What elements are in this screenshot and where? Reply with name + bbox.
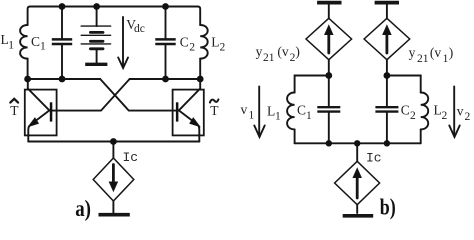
svg-text:T: T (10, 103, 19, 118)
svg-text:1: 1 (8, 40, 14, 52)
svg-text:21: 21 (417, 53, 429, 65)
svg-text:2: 2 (410, 110, 416, 122)
svg-text:v: v (457, 104, 464, 119)
svg-text:1: 1 (443, 53, 449, 65)
svg-text:dc: dc (134, 23, 145, 35)
svg-text:2: 2 (220, 42, 226, 54)
svg-text:C: C (401, 103, 410, 118)
svg-text:2: 2 (189, 42, 195, 54)
svg-text:y: y (409, 45, 416, 60)
svg-text:1: 1 (306, 110, 312, 122)
svg-text:Ic: Ic (366, 151, 382, 166)
svg-text:L: L (211, 34, 219, 49)
svg-text:C: C (31, 34, 40, 49)
svg-text:2: 2 (465, 111, 471, 123)
svg-text:(v: (v (430, 45, 441, 60)
svg-text:1: 1 (249, 110, 255, 122)
svg-text:T: T (210, 103, 219, 118)
svg-text:): ) (295, 44, 300, 59)
svg-text:y: y (256, 44, 263, 59)
svg-text:Ic: Ic (123, 150, 139, 165)
svg-text:2: 2 (442, 110, 448, 122)
svg-text:L: L (434, 103, 442, 118)
svg-text:L: L (267, 104, 275, 119)
svg-text:): ) (449, 45, 454, 60)
svg-text:21: 21 (263, 52, 275, 64)
svg-text:C: C (297, 103, 306, 118)
svg-text:a): a) (75, 196, 91, 221)
svg-text:1: 1 (40, 41, 46, 53)
svg-text:C: C (180, 34, 189, 49)
svg-text:b): b) (380, 195, 396, 220)
svg-text:1: 1 (275, 111, 281, 123)
svg-text:(v: (v (277, 44, 288, 59)
svg-text:v: v (241, 102, 248, 117)
